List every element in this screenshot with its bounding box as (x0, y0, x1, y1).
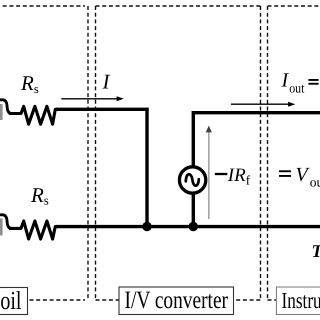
resistor R2 (R_s bottom) (10, 221, 58, 239)
resistor R1 (R_s top) (10, 106, 58, 124)
wire: vertical drop to bottom bus (145, 108, 148, 227)
label box: instrumentation amplifier (276, 287, 320, 315)
svg-text:T: T (312, 241, 320, 261)
dashed box: instrumentation amplifier (268, 6, 320, 300)
svg-text:I/V converter: I/V converter (125, 287, 229, 314)
label I_out = (281, 70, 319, 96)
label box: coil (0, 286, 28, 315)
wire: top resistor to I/V input corner (56, 108, 149, 111)
label box: I/V converter (119, 287, 234, 315)
voltage arrow -IR_f (grey, pointing up) (206, 126, 212, 219)
label -IR_f (215, 165, 251, 187)
junction dot A (I/V input) (142, 222, 151, 231)
current arrow I (61, 96, 124, 101)
current arrow I_out (231, 102, 295, 107)
svg-text:Instrumentation: Instrumentation (282, 288, 320, 313)
svg-text:I: I (281, 70, 290, 92)
svg-text:out: out (289, 80, 304, 95)
wire: bottom bus (56, 225, 320, 228)
coil terminal bottom (cut off at left edge) (0, 215, 12, 236)
dashed box: search coil (0, 6, 88, 300)
svg-text:coil: coil (0, 286, 22, 315)
AC source U1 (179, 167, 205, 193)
dashed box: I/V converter (96, 6, 261, 300)
coil terminal top (cut off at left edge) (0, 100, 12, 120)
wire: source top lead to output (193, 113, 320, 168)
svg-text:out: out (310, 175, 320, 190)
wire: source bottom lead (192, 192, 195, 227)
svg-text:I: I (102, 69, 111, 93)
label = V_out (279, 164, 320, 190)
junction dot B (source bottom) (189, 222, 198, 231)
